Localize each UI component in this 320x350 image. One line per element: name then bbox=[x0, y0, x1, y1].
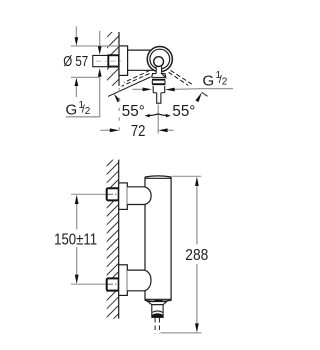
aerator thick band top bbox=[152, 79, 165, 81]
lower inlet extension/center line bbox=[71, 283, 107, 285]
dia57 bottom arrow bbox=[75, 86, 77, 98]
outlet inner dome bbox=[152, 311, 162, 312]
svg-text:2: 2 bbox=[222, 76, 228, 87]
outlet tube shoulder bbox=[153, 92, 165, 94]
aerator ring sides bbox=[151, 81, 153, 84]
body bottom edge bbox=[128, 69, 156, 71]
72 dim left extension (dashed vertical at wall face) bbox=[118, 88, 120, 134]
aerator thick band bottom bbox=[152, 83, 166, 85]
right swivel solid stub bbox=[202, 92, 208, 96]
inlet pipe centerline bbox=[96, 60, 123, 62]
upper flange bbox=[119, 183, 128, 210]
left swivel solid line bbox=[108, 77, 151, 96]
svg-text:288: 288 bbox=[185, 247, 208, 264]
G12-right leader arrow bbox=[174, 88, 202, 91]
wall hatch (top view) bbox=[96, 18, 126, 113]
lower inlet centerline over nut bbox=[108, 283, 123, 285]
upper union barrel bbox=[127, 187, 151, 205]
outlet tube sides bbox=[152, 86, 154, 93]
G12-left label bbox=[66, 100, 91, 119]
lower union nut bbox=[107, 278, 119, 290]
G12-right label bbox=[203, 70, 228, 90]
288 dim line with arrows bbox=[196, 186, 198, 245]
wall hatch (front view) bbox=[96, 143, 130, 345]
svg-text:2: 2 bbox=[85, 106, 91, 117]
288 top extension line bbox=[172, 175, 202, 177]
body (horizontal cylinder) top edge bbox=[128, 49, 152, 51]
G12-left underline bbox=[66, 116, 100, 118]
dia57 top arrow bbox=[75, 26, 77, 38]
dia57 bottom extension line bbox=[71, 76, 100, 78]
upper inlet extension/center line bbox=[71, 193, 107, 195]
body bottom cap arc bbox=[145, 299, 171, 302]
upper union nut bbox=[107, 188, 119, 200]
lower union barrel bbox=[127, 270, 151, 291]
handle ring circle bbox=[150, 49, 170, 69]
body top cap arc bbox=[145, 176, 171, 177]
angle arrow right bbox=[166, 114, 171, 118]
left swivel dashed line 1 bbox=[124, 70, 150, 82]
handle outer circle bbox=[147, 47, 172, 72]
cylinder body outline bbox=[145, 176, 171, 301]
288 bottom extension line bbox=[161, 332, 202, 334]
55deg leader arrow right bbox=[195, 92, 202, 102]
angle arrow left bbox=[145, 114, 150, 118]
body right edge bbox=[170, 177, 172, 301]
hose nipple bbox=[157, 93, 161, 103]
upper inlet centerline over nut bbox=[108, 193, 123, 195]
inlet pipe (nipple through wall) bbox=[93, 55, 109, 66]
tube OD left arrow bbox=[133, 88, 144, 90]
union nut in wall bbox=[108, 55, 119, 66]
body bottom dark segment bbox=[154, 300, 162, 302]
72 dim line left arrow bbox=[100, 129, 110, 131]
body top seam bbox=[145, 177, 171, 179]
lower flange bbox=[119, 265, 128, 296]
left swivel dashed line 2 bbox=[122, 74, 150, 87]
right swivel dashed line 2 bbox=[169, 72, 189, 85]
wall face line (top view) bbox=[118, 32, 120, 86]
outlet centerline vertical bbox=[157, 105, 159, 134]
right swivel dashed line 1 bbox=[171, 70, 192, 84]
body bottom seam bbox=[145, 298, 171, 300]
handle stem white mask bbox=[156, 62, 161, 73]
outlet block bbox=[152, 305, 163, 318]
G12-left riser upper arrow bbox=[99, 31, 101, 47]
outlet collar bbox=[152, 74, 166, 78]
G12-left riser lower arrow bbox=[99, 77, 101, 117]
svg-text:55°: 55° bbox=[172, 103, 195, 120]
svg-text:55°: 55° bbox=[122, 103, 145, 120]
svg-text:Ø 57: Ø 57 bbox=[63, 53, 88, 70]
svg-text:G: G bbox=[66, 102, 78, 119]
body left edge segments bbox=[144, 177, 146, 187]
dia57 top extension line bbox=[71, 45, 119, 47]
handle inner circle bbox=[154, 57, 164, 67]
svg-text:G: G bbox=[203, 73, 215, 90]
72 dim line right arrow bbox=[167, 129, 174, 131]
wall face line (front view) bbox=[118, 160, 120, 319]
hose nipple dashed bbox=[155, 318, 159, 333]
outlet dark band bbox=[152, 314, 162, 317]
handle stem sides bbox=[155, 66, 157, 73]
svg-text:72: 72 bbox=[131, 123, 146, 140]
G12-right underline bbox=[201, 88, 233, 90]
escutcheon flange bbox=[119, 46, 128, 76]
150 dim line with arrows bbox=[76, 204, 78, 230]
svg-text:150±11: 150±11 bbox=[54, 231, 97, 248]
55deg leader arrow left bbox=[114, 94, 121, 103]
outlet trapezoid bbox=[148, 302, 167, 305]
